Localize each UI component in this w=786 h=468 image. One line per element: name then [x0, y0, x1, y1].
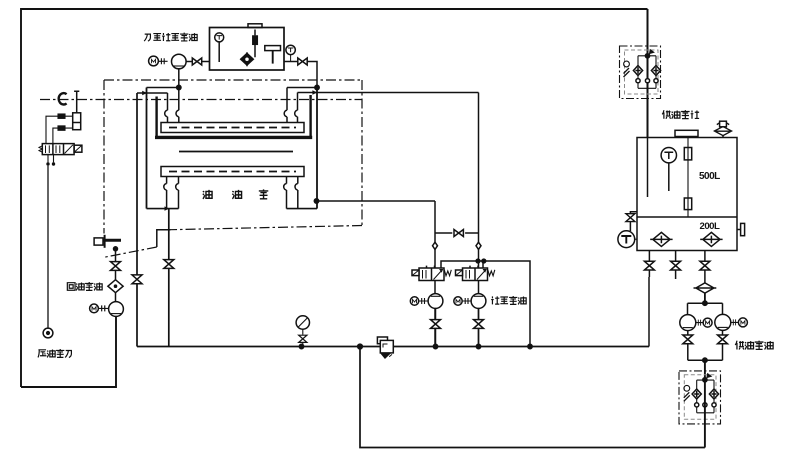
metering pump left motor — [410, 297, 418, 305]
hanger rod lower right1 — [284, 177, 287, 209]
svg-text:500L: 500L — [699, 171, 720, 182]
wire pump to valve — [186, 61, 192, 63]
filter loop — [638, 56, 656, 89]
fitting square lower — [58, 126, 65, 130]
small motor mark — [624, 61, 630, 67]
wire metering risers — [434, 201, 436, 347]
machine boundary dash-dot top — [104, 79, 362, 81]
node: heating right junction — [315, 85, 319, 89]
lower beam — [161, 167, 304, 177]
heater element in tank — [254, 30, 256, 58]
valve (heating supply) — [192, 58, 201, 65]
valves under supply pumps — [687, 331, 689, 361]
level probe T — [265, 46, 281, 51]
tank drain stubs with valves — [648, 251, 650, 278]
wire filter to pump — [115, 293, 117, 302]
bottom return line — [360, 347, 705, 448]
supply pump right — [715, 314, 731, 330]
chamber left foot — [147, 208, 179, 210]
wire tank to valve — [284, 61, 298, 63]
tie line with valve — [435, 232, 479, 234]
node dots on manifold — [299, 344, 303, 348]
discharge filter box outer — [679, 371, 721, 424]
node with flag — [703, 378, 707, 382]
valve (heating return) — [298, 58, 307, 65]
supply pump left — [680, 315, 696, 331]
station filter box inner — [625, 50, 659, 94]
port circles — [636, 79, 640, 83]
thermometer in tank — [215, 33, 224, 42]
level switch diamond — [246, 52, 248, 66]
200L agitator right — [700, 232, 722, 246]
hanger rod lower right2 — [295, 177, 298, 209]
wire lower beam to metering — [317, 200, 436, 202]
label: oil supply station 供油泵站 — [662, 110, 699, 119]
hanger rod upper right1 — [284, 88, 287, 123]
tank divider — [637, 216, 737, 218]
metering pump right — [471, 294, 486, 309]
heater rod — [687, 138, 689, 218]
hanger rod upper left2 — [176, 90, 179, 123]
coupling — [159, 58, 168, 64]
station filter box outer (dash-dot) — [620, 46, 661, 99]
node: heating left junction — [177, 85, 181, 89]
filter diamond right — [651, 66, 660, 76]
node: scraper drain — [114, 247, 118, 251]
wire valve to fittings — [46, 116, 58, 143]
solenoid valve left — [419, 268, 444, 281]
spring return W — [39, 146, 42, 152]
upper knife beam — [161, 123, 304, 133]
supply pumps branch — [688, 303, 723, 315]
machine boundary dash-dot right — [361, 80, 363, 226]
machine boundary slanted segment — [171, 226, 363, 230]
supply pump left motor — [696, 320, 703, 326]
test coupling right — [476, 242, 481, 249]
suction filter diamond — [694, 283, 717, 293]
suction pipe — [647, 138, 649, 198]
flow arrow on left foot — [165, 206, 170, 210]
wire heat header right — [287, 87, 317, 89]
compressed air source — [43, 328, 53, 338]
pressure gauge — [296, 316, 309, 329]
label: metering pump group 计量泵组 — [491, 296, 526, 304]
label: recovery pump group 回收泵组 — [67, 282, 102, 290]
port circles — [695, 403, 699, 407]
down line x137 with valve — [136, 93, 138, 347]
chamber right foot — [287, 208, 318, 210]
label: knife-beam heating system 刀梁加热系统 — [144, 33, 197, 41]
valve (recovery) — [111, 262, 121, 271]
pneumatic directional valve — [42, 144, 74, 155]
supply pump right motor — [731, 319, 738, 325]
air cylinder — [73, 113, 81, 130]
scraper flange — [94, 238, 103, 245]
right drain flange — [737, 229, 741, 231]
tank hatch — [675, 130, 698, 136]
fitting square upper — [58, 114, 65, 118]
recovery pump motor — [90, 304, 99, 313]
hanger rod lower left2 — [176, 177, 179, 209]
label: supply pump group 供油泵组 — [735, 341, 773, 350]
steel strip in chamber — [179, 151, 293, 153]
down line x168.8 with valve — [168, 209, 170, 347]
node: lower beam feed — [314, 199, 318, 203]
recovery pump — [109, 302, 124, 317]
hanger rod upper right2 — [295, 93, 298, 123]
filter diamond left — [633, 66, 642, 76]
valve on x168.8 — [164, 260, 174, 269]
filler cap on tank — [248, 24, 262, 28]
small motor mark — [684, 385, 690, 391]
wire valve to filter — [115, 270, 117, 279]
boundary corner piece — [157, 230, 171, 247]
tank thermometer — [661, 148, 676, 163]
test coupling left — [433, 242, 438, 249]
wire heat header left — [147, 87, 179, 89]
valve on x137 — [132, 275, 142, 284]
strip pass line (dash-dot) — [40, 99, 362, 101]
heating oil tank — [210, 28, 285, 71]
manifold line — [137, 346, 649, 348]
cylinder rod — [74, 91, 79, 113]
solenoid valve right — [463, 268, 488, 281]
filter diamonds — [692, 389, 701, 399]
wire air supply riser — [47, 166, 49, 329]
return header y261 — [441, 261, 530, 347]
wire oil header right y92.5 — [298, 92, 479, 94]
boundary slant to scraper — [103, 247, 157, 258]
relief valve on manifold — [377, 337, 387, 344]
scraper bracket — [104, 235, 106, 248]
heating circulation pump — [172, 54, 187, 69]
node y261 junctions — [476, 259, 480, 263]
wire fittings to cylinder — [65, 116, 73, 128]
label: compressed air 压缩空气 — [38, 349, 72, 357]
metering pump left — [428, 294, 443, 309]
wire oil header left y93 — [137, 92, 168, 94]
strip coil symbol C — [59, 93, 67, 104]
svg-text:200L: 200L — [700, 221, 721, 232]
hanger rod lower left1 — [164, 177, 167, 209]
wire filter to branch — [704, 293, 706, 303]
breather cap — [720, 121, 727, 127]
return riser from manifold corner — [648, 277, 650, 347]
wire valve to right drop — [307, 62, 317, 88]
wire: supply station drop line — [647, 9, 649, 138]
wire into discharge filter box — [704, 360, 706, 380]
node branch top — [703, 301, 707, 305]
wire scraper to valve — [115, 249, 117, 262]
thermometer on tank outlet — [286, 45, 295, 54]
exhaust stubs — [48, 155, 54, 163]
machine boundary dash-dot left — [103, 80, 105, 234]
wire: loop bottom-left to recovery pump — [21, 316, 116, 387]
oil tank body — [637, 138, 737, 251]
motor of heating pump — [149, 56, 159, 66]
knife blade thick U — [157, 95, 311, 137]
200L agitator left — [650, 232, 672, 246]
coupling — [99, 305, 109, 311]
discharge filter loop — [697, 380, 714, 413]
wire valve to tank — [202, 61, 210, 63]
left elbow with valve — [630, 212, 637, 231]
flow arrow on right header — [312, 90, 317, 94]
discharge filter box inner — [684, 375, 716, 420]
node with flag — [645, 54, 649, 58]
pilot box — [74, 145, 82, 152]
label: coating chamber 涂油室 — [203, 189, 269, 199]
chamber left wall — [146, 88, 148, 209]
wire pump suction drop — [178, 69, 180, 88]
metering pump right motor — [454, 297, 462, 305]
chamber right wall — [316, 88, 318, 209]
scraper blade bar — [103, 239, 121, 242]
tank thermometer gauge big T — [618, 231, 635, 248]
wire through box down — [704, 382, 706, 448]
wire: main recovery loop top — [21, 9, 648, 387]
hanger rod upper left1 — [165, 93, 168, 123]
valves under metering pumps — [435, 308, 437, 346]
bottom branch join — [688, 359, 723, 361]
gauge isolation valve — [299, 335, 307, 342]
filter diamond with dot — [108, 280, 123, 293]
flow arrow on left header — [142, 91, 147, 95]
